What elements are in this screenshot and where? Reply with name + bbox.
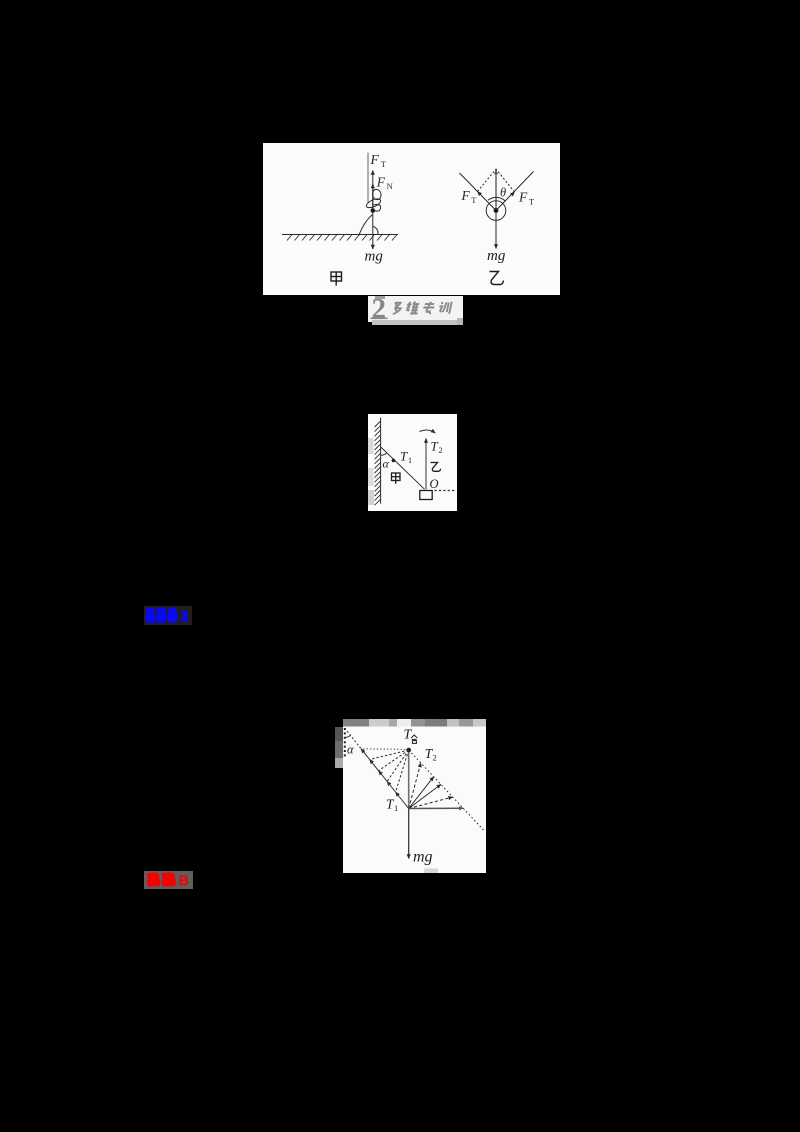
T-he vertical grey line [408, 750, 410, 808]
resultant dashed line up [495, 170, 497, 211]
T1 arrowheads [361, 749, 403, 802]
wall line [380, 418, 382, 504]
wall hatching [375, 421, 381, 505]
label FT right [518, 190, 535, 207]
wall dotted vertical [344, 728, 346, 759]
glyph wei [406, 302, 420, 314]
bow knot ellipse [365, 197, 382, 209]
svg-text:F: F [376, 174, 386, 189]
horizontal grey arrow [409, 807, 464, 809]
svg-text:θ: θ [500, 186, 506, 200]
balloon small ellipse [372, 189, 382, 201]
label jia (Chinese) [392, 473, 401, 484]
dashed parallelogram right [496, 169, 515, 192]
angle alpha arc [381, 453, 387, 456]
label T1 [400, 448, 412, 465]
rope solid (T1 overlap) [361, 749, 409, 809]
bow loop right [374, 204, 381, 211]
T-he tip dot [406, 748, 411, 753]
circle ball [486, 201, 506, 221]
FT left arrowhead [478, 192, 497, 211]
label T2 [425, 746, 437, 763]
svg-text:T: T [471, 195, 477, 205]
svg-text:T: T [381, 159, 387, 169]
label yi (Chinese) [431, 463, 441, 472]
T2 fan arrows from O [409, 763, 421, 809]
svg-text:B: B [179, 874, 189, 889]
svg-text:α: α [383, 457, 390, 471]
FT right arrowhead [496, 192, 515, 211]
rope line jia [367, 153, 369, 204]
svg-text:1: 1 [408, 456, 412, 465]
mg arrow [408, 809, 410, 859]
block box [420, 491, 432, 500]
banner Chinese text (duo wei zhuan xun) [392, 302, 451, 315]
dashed horizontal line [435, 490, 457, 492]
force FN arrow jia [372, 184, 374, 210]
he subscript (Chinese) [411, 735, 417, 743]
wall grey artifacts [368, 438, 374, 454]
dashed fan from dot to T1 tips [361, 749, 409, 792]
physics figure panel 1 [263, 143, 560, 295]
svg-text:N: N [387, 181, 393, 191]
section banner [368, 296, 463, 322]
label FT jia [370, 152, 387, 169]
banner number 2 [368, 296, 463, 323]
glyph xun [438, 302, 452, 314]
center dot [494, 208, 499, 213]
svg-text:mg: mg [413, 849, 433, 866]
label T1 [386, 797, 398, 814]
top fuzzy grey strip [343, 719, 486, 727]
svg-text:mg: mg [487, 248, 506, 264]
label FN jia [376, 174, 393, 191]
svg-text:T: T [431, 439, 439, 454]
rope dotted from corner [345, 728, 362, 749]
string curve left [359, 215, 372, 235]
svg-text:T: T [400, 448, 408, 463]
left string line [460, 173, 497, 211]
ground hatching [287, 235, 397, 241]
svg-text:F: F [518, 190, 528, 205]
rope yi vertical arrow T2 [425, 439, 427, 490]
svg-text:T: T [529, 197, 535, 207]
rotation curved arrow [420, 430, 436, 433]
angle alpha arc [345, 735, 351, 737]
label jia (Chinese) [331, 272, 342, 286]
physics figure panel 3 [343, 719, 486, 873]
glyph duo [392, 302, 402, 314]
svg-text:O: O [430, 477, 439, 491]
force FT arrow jia [372, 171, 374, 211]
rope jia diagonal [381, 447, 425, 490]
bottom smudge [424, 869, 438, 874]
right string line [496, 172, 534, 211]
wall grey blocks left of panel3 [335, 727, 343, 741]
mg arrow yi [495, 213, 497, 249]
ground line [282, 234, 398, 236]
svg-text:2: 2 [439, 446, 443, 455]
svg-text:mg: mg [365, 248, 384, 264]
svg-text:α: α [347, 743, 354, 757]
glyph zhuan [422, 302, 436, 314]
angle arc theta [488, 197, 506, 201]
label T2 [431, 439, 443, 456]
red tag [144, 871, 193, 889]
blue tag [144, 606, 192, 625]
label FT left [461, 188, 478, 205]
dashed extension line through T2 tips [409, 750, 485, 831]
knot dot jia [371, 208, 376, 213]
svg-text:F: F [370, 152, 380, 167]
dot on rope [392, 459, 396, 463]
physics figure panel 2 [368, 414, 457, 511]
label yi (Chinese) [490, 272, 504, 285]
label T-he [404, 728, 413, 743]
mg arrow jia [372, 212, 374, 249]
dashed parallelogram left [478, 169, 497, 192]
svg-text:2: 2 [433, 753, 437, 763]
svg-text:F: F [461, 188, 471, 203]
string curve right [373, 226, 378, 234]
svg-text:T: T [404, 728, 413, 743]
svg-text:1: 1 [394, 803, 398, 813]
